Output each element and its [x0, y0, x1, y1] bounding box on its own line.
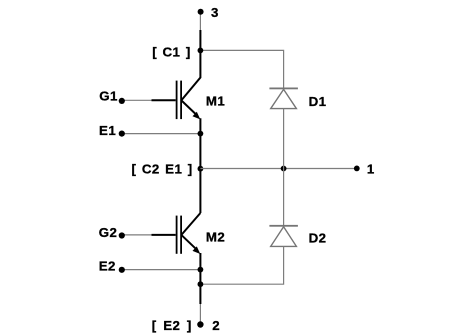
terminal 1 dot: [354, 166, 360, 172]
node E2 junction: [198, 267, 204, 273]
diode D1 triangle: [271, 89, 297, 108]
wire: mid node down to D2 cathode: [283, 169, 285, 226]
transistor M2 collector diagonal: [182, 213, 201, 235]
wire: D2 anode down and left to emitter node: [200, 247, 283, 285]
transistor M1 gate bar: [176, 81, 178, 120]
svg-text:2: 2: [212, 318, 220, 333]
node E1 junction: [198, 131, 204, 137]
transistor M2 gate pin: [152, 234, 176, 236]
transistor M1 emitter arrow: [193, 112, 201, 120]
transistor M2 emitter arrow: [193, 246, 201, 254]
svg-text:[ C2 E1 ]: [ C2 E1 ]: [132, 162, 193, 177]
diode D2 cathode bar: [269, 225, 298, 227]
wire: C2E1 to terminal 1: [200, 168, 356, 170]
transistor M2 gate bar: [176, 216, 178, 254]
terminal E2 dot: [119, 267, 125, 273]
node C1 junction: [198, 48, 204, 54]
svg-text:D1: D1: [309, 94, 327, 109]
diode D1 cathode bar: [269, 88, 298, 90]
svg-text:M1: M1: [206, 93, 226, 108]
transistor M1 gate pin: [152, 99, 176, 101]
wire: E1 to emitter node: [122, 133, 201, 135]
wire: D1 anode down to mid node: [283, 109, 285, 169]
transistor M2 body bar: [180, 216, 182, 254]
wire: G2 to gate pin: [122, 234, 152, 236]
terminal 2 dot: [197, 321, 203, 327]
svg-text:3: 3: [211, 5, 219, 20]
wire: C1 to D1 cathode: [200, 50, 283, 87]
terminal G1 dot: [119, 98, 125, 104]
terminal E1 dot: [119, 131, 125, 137]
wire: E2 to emitter node: [122, 269, 201, 271]
svg-text:E1: E1: [99, 123, 116, 138]
transistor M1 body bar: [180, 81, 182, 120]
svg-text:1: 1: [367, 162, 375, 177]
wire: terminal 2 stub: [199, 304, 201, 325]
svg-text:D2: D2: [309, 231, 327, 246]
diode D2 triangle: [271, 227, 297, 247]
wire: M1 emitter down to M2 collector (main bus): [199, 118, 201, 213]
transistor M1 emitter diagonal: [182, 101, 197, 116]
terminal G2 dot: [119, 232, 125, 238]
transistor M2 emitter diagonal: [182, 235, 197, 250]
transistor M1 collector pin: [182, 30, 201, 100]
svg-text:G1: G1: [99, 89, 118, 104]
wire: M2 emitter down (black pin): [199, 253, 201, 304]
svg-text:E2: E2: [99, 259, 116, 274]
node C2E1 junction: [198, 166, 204, 172]
svg-text:[ C1 ]: [ C1 ]: [152, 44, 191, 59]
wire: terminal 3 stub: [199, 12, 201, 30]
terminal 3 dot: [198, 9, 204, 15]
node diode column junction: [281, 166, 287, 172]
svg-text:M2: M2: [206, 230, 225, 245]
wire: G1 to gate pin: [122, 99, 152, 101]
svg-text:G2: G2: [99, 225, 118, 240]
svg-text:[ E2 ]: [ E2 ]: [152, 318, 192, 333]
node D2 return junction: [198, 281, 204, 287]
